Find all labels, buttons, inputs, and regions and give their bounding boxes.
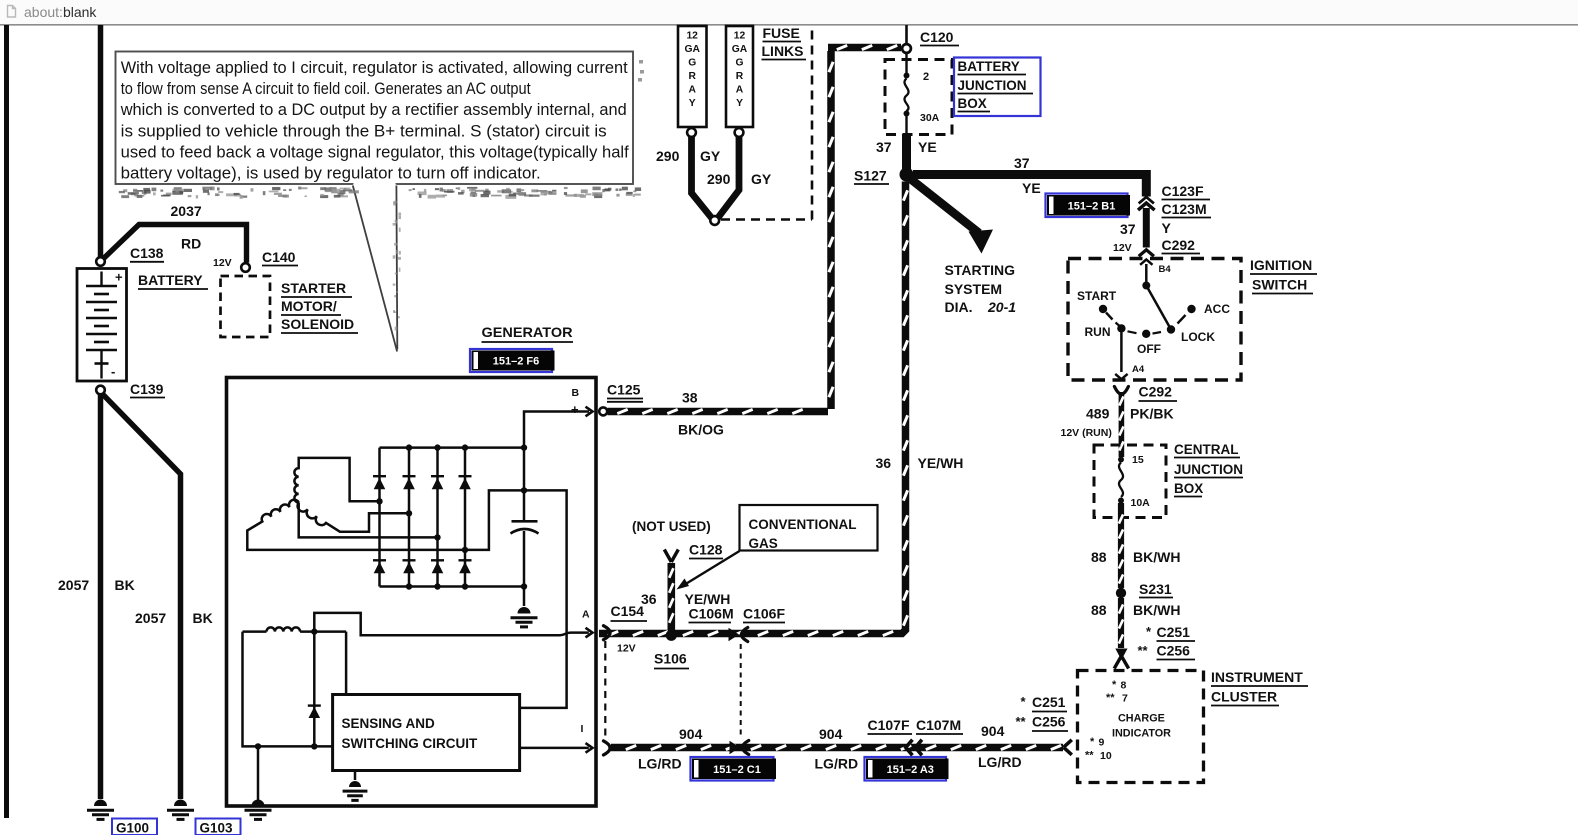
rectifier diodes <box>378 448 381 587</box>
svg-text:is supplied to vehicle through: is supplied to vehicle through the B+ te… <box>121 122 607 140</box>
svg-text:2037: 2037 <box>171 203 202 219</box>
wire battery feed vertical <box>98 25 104 257</box>
svg-text:A: A <box>688 85 696 96</box>
svg-text:GA: GA <box>684 44 700 55</box>
wire 2057 BK diagonal <box>102 394 181 800</box>
svg-text:A4: A4 <box>1132 364 1145 375</box>
contact LOCK <box>1167 325 1175 333</box>
svg-text:**: ** <box>1138 643 1149 658</box>
svg-text:BATTERY: BATTERY <box>958 59 1020 74</box>
svg-text:290: 290 <box>656 148 680 164</box>
fuse link left box <box>678 26 707 127</box>
svg-text:9: 9 <box>1099 737 1105 749</box>
svg-text:START: START <box>1077 289 1117 303</box>
svg-text:BK/WH: BK/WH <box>1133 549 1180 565</box>
svg-text:88: 88 <box>1091 602 1107 618</box>
svg-text:C256: C256 <box>1032 714 1066 730</box>
svg-text:to flow from sense A circuit t: to flow from sense A circuit to field co… <box>121 80 531 98</box>
svg-text:FUSE: FUSE <box>763 25 800 41</box>
connector C292 top <box>1139 250 1154 256</box>
svg-text:Y: Y <box>689 98 696 109</box>
node neutral to diode 3 <box>434 534 440 540</box>
svg-text:CENTRAL: CENTRAL <box>1174 442 1239 457</box>
label box 151-2 F6 <box>470 349 552 372</box>
browser tab bar <box>0 0 1578 24</box>
wire left edge vertical <box>4 25 9 818</box>
svg-text:C251: C251 <box>1032 694 1066 710</box>
node phase B to diode 4 <box>462 547 468 553</box>
arrow conventional gas <box>684 551 740 585</box>
svg-text:*: * <box>1112 679 1117 691</box>
svg-text:7: 7 <box>1122 693 1128 705</box>
svg-text:S106: S106 <box>654 651 687 667</box>
fuse link right box <box>726 26 753 127</box>
svg-text:BK: BK <box>193 610 213 626</box>
svg-text:A: A <box>736 85 744 96</box>
svg-text:12: 12 <box>734 31 746 42</box>
splice S127 <box>900 168 914 182</box>
904 wire end split <box>1064 740 1072 748</box>
svg-text:GAS: GAS <box>749 536 778 551</box>
wire 290 GY left <box>692 137 713 219</box>
svg-text:SYSTEM: SYSTEM <box>945 281 1003 297</box>
svg-text:C140: C140 <box>262 249 296 265</box>
svg-text:SENSING AND: SENSING AND <box>342 716 436 731</box>
dashed wire C106 to 904 <box>740 644 742 739</box>
svg-text:CLUSTER: CLUSTER <box>1211 689 1277 705</box>
ignition switch wiper <box>1142 282 1150 290</box>
svg-text:12V: 12V <box>1113 242 1132 254</box>
svg-text:B4: B4 <box>1159 264 1172 275</box>
svg-text:B: B <box>572 387 580 399</box>
field return wire <box>243 632 333 747</box>
node phase A to diode 1 <box>376 498 382 504</box>
svg-text:RUN: RUN <box>1085 325 1111 339</box>
contact START <box>1099 305 1107 313</box>
splice S106 <box>666 630 677 641</box>
svg-text:STARTING: STARTING <box>945 262 1016 278</box>
wire 290 GY right <box>717 137 739 219</box>
node field coil / diode top <box>311 628 317 634</box>
svg-text:used to feed back a voltage si: used to feed back a voltage signal regul… <box>121 143 629 161</box>
wire 38 BK/OG <box>608 408 829 416</box>
svg-text:OFF: OFF <box>1137 342 1161 356</box>
svg-text:JUNCTION: JUNCTION <box>958 78 1027 93</box>
sensing and switching circuit box <box>333 695 520 771</box>
connector at dashed line <box>730 741 741 754</box>
label box 151-2 A3 <box>865 757 947 781</box>
wire 88 BK/WH lower <box>1118 598 1124 648</box>
arrow to starting system <box>910 179 979 234</box>
svg-text:GY: GY <box>751 171 772 187</box>
svg-text:(NOT USED): (NOT USED) <box>632 519 711 534</box>
cut end of stub <box>664 550 671 563</box>
svg-text:YE/WH: YE/WH <box>918 455 964 471</box>
svg-text:+: + <box>571 402 579 417</box>
svg-text:BOX: BOX <box>1174 481 1203 496</box>
svg-text:battery voltage), is used by r: battery voltage), is used by regulator t… <box>121 165 541 183</box>
svg-text:**: ** <box>1016 714 1027 729</box>
svg-text:12: 12 <box>686 31 698 42</box>
arrow I terminal <box>586 743 593 753</box>
svg-text:MOTOR/: MOTOR/ <box>281 298 337 314</box>
battery B1 box <box>77 269 127 382</box>
svg-text:12V: 12V <box>617 643 636 655</box>
wire 88 BK/WH upper <box>1118 503 1124 588</box>
svg-text:10A: 10A <box>1131 497 1151 509</box>
svg-text:I: I <box>581 723 584 735</box>
svg-text:BK/OG: BK/OG <box>678 422 724 438</box>
svg-text:C251: C251 <box>1157 624 1191 640</box>
B4 arrow <box>1145 264 1148 283</box>
svg-text:LG/RD: LG/RD <box>638 756 682 772</box>
svg-text:12V: 12V <box>213 257 232 269</box>
arrow A terminal <box>586 628 593 638</box>
capacitor C <box>523 448 526 522</box>
fuse link right terminal <box>735 128 744 137</box>
svg-text:C123F: C123F <box>1162 183 1204 199</box>
svg-text:88: 88 <box>1091 549 1107 565</box>
svg-text:2: 2 <box>923 71 929 83</box>
svg-text:BK: BK <box>115 577 135 593</box>
svg-text:C107M: C107M <box>916 717 961 733</box>
wire fuse to S127 <box>902 134 911 169</box>
svg-text:about:blank: about:blank <box>24 4 97 20</box>
rectifier rails <box>380 446 525 449</box>
svg-text:G100: G100 <box>116 821 149 835</box>
svg-text:C292: C292 <box>1162 237 1196 253</box>
wire 489 PK/BK <box>1119 392 1125 457</box>
connector C107F C107M <box>906 740 913 756</box>
svg-text:904: 904 <box>819 726 843 742</box>
node diode bottom <box>311 743 317 749</box>
svg-text:CHARGE: CHARGE <box>1118 713 1165 725</box>
svg-text:INDICATOR: INDICATOR <box>1112 728 1171 740</box>
node phase C to diode 2 <box>406 510 412 516</box>
svg-text:S127: S127 <box>854 168 887 184</box>
page icon <box>8 6 16 18</box>
svg-text:LG/RD: LG/RD <box>978 754 1022 770</box>
wire 904 LG/RD <box>611 744 1063 752</box>
svg-text:LG/RD: LG/RD <box>815 756 859 772</box>
svg-text:GY: GY <box>700 148 721 164</box>
stator feedback wire to regulator <box>465 490 567 708</box>
wire to case ground <box>257 746 260 800</box>
svg-text:C256: C256 <box>1157 643 1191 659</box>
wire A sense line <box>314 613 589 635</box>
svg-text:PK/BK: PK/BK <box>1130 406 1174 422</box>
svg-text:C123M: C123M <box>1162 201 1207 217</box>
note box border <box>116 52 634 185</box>
svg-text:290: 290 <box>707 171 731 187</box>
wire above C120 <box>905 25 908 44</box>
scan noise under note box <box>153 192 156 195</box>
svg-text:INSTRUMENT: INSTRUMENT <box>1211 669 1303 685</box>
label box 151-2 C1 <box>691 757 774 781</box>
svg-text:SWITCH: SWITCH <box>1252 277 1307 293</box>
svg-text:C125: C125 <box>607 382 641 398</box>
svg-text:151–2 B1: 151–2 B1 <box>1068 201 1116 213</box>
svg-text:151–2 C1: 151–2 C1 <box>713 764 761 776</box>
svg-text:DIA.: DIA. <box>945 299 973 315</box>
svg-text:2057: 2057 <box>58 577 89 593</box>
svg-text:R: R <box>688 71 696 82</box>
field coil inductor <box>243 630 267 633</box>
svg-text:GENERATOR: GENERATOR <box>482 324 573 340</box>
contact OFF <box>1142 330 1150 338</box>
svg-text:36: 36 <box>876 455 892 471</box>
svg-text:151–2 A3: 151–2 A3 <box>887 764 934 776</box>
wire 2057 BK left <box>98 393 104 799</box>
generator box <box>227 378 597 807</box>
instrument cluster box <box>1078 671 1204 783</box>
svg-text:STARTER: STARTER <box>281 280 346 296</box>
wire 36 YE/WH <box>599 182 906 634</box>
contact RUN <box>1117 324 1125 332</box>
label G103 <box>196 819 241 835</box>
svg-text:2057: 2057 <box>135 610 166 626</box>
generator case ground <box>252 800 265 806</box>
wire hatched vertical to C125 <box>827 51 835 409</box>
ground G100 symbol <box>94 800 107 806</box>
svg-text:which is converted to a DC out: which is converted to a DC output by a r… <box>120 101 627 119</box>
svg-text:YE: YE <box>1022 180 1041 196</box>
svg-text:G: G <box>735 58 743 69</box>
connector C125 <box>599 407 607 415</box>
svg-text:BATTERY: BATTERY <box>138 272 203 288</box>
svg-text:C138: C138 <box>130 245 164 261</box>
svg-text:SWITCHING CIRCUIT: SWITCHING CIRCUIT <box>342 736 478 751</box>
node capacitor top <box>521 487 527 493</box>
svg-text:C107F: C107F <box>868 717 910 733</box>
label box 151-2 B1 <box>1046 194 1128 218</box>
svg-text:G103: G103 <box>200 821 234 835</box>
svg-text:S231: S231 <box>1139 581 1172 597</box>
label BATTERY JUNCTION BOX <box>954 58 1041 117</box>
wire hatched horizontal to C120 <box>828 44 901 52</box>
connector C140 circle <box>241 263 250 272</box>
svg-text:CONVENTIONAL: CONVENTIONAL <box>749 517 857 532</box>
arrow B terminal <box>586 407 593 417</box>
svg-text:15: 15 <box>1132 454 1144 466</box>
svg-text:**: ** <box>1085 750 1094 762</box>
svg-text:A: A <box>582 609 590 621</box>
svg-text:37: 37 <box>1120 221 1136 237</box>
svg-text:37: 37 <box>876 139 892 155</box>
wire 37 YE to ignition switch <box>913 175 1146 197</box>
wire 2037 RD <box>104 225 247 263</box>
svg-text:YE: YE <box>918 139 937 155</box>
svg-text:10: 10 <box>1100 750 1112 762</box>
svg-text:G: G <box>688 58 696 69</box>
connector C120 <box>902 44 911 53</box>
svg-text:ACC: ACC <box>1204 302 1230 316</box>
fuse link left terminal <box>687 128 696 137</box>
field diode <box>313 632 316 747</box>
svg-text:36: 36 <box>641 591 657 607</box>
svg-text:20-1: 20-1 <box>987 299 1016 315</box>
svg-text:151–2 F6: 151–2 F6 <box>493 356 539 368</box>
svg-text:489: 489 <box>1086 406 1110 422</box>
battery junction box <box>885 60 952 135</box>
svg-text:BK/WH: BK/WH <box>1133 602 1180 618</box>
label G100 <box>112 819 157 835</box>
dashed connector boundary <box>604 641 606 741</box>
regulator ground <box>354 771 357 781</box>
connector C123F C123M <box>1139 197 1154 203</box>
svg-text:C154: C154 <box>611 603 645 619</box>
connector I horns <box>604 741 611 755</box>
stator neutral tap <box>299 503 438 538</box>
contact ACC <box>1187 305 1195 313</box>
svg-text:**: ** <box>1106 692 1115 704</box>
svg-text:C106M: C106M <box>689 606 734 622</box>
central junction box <box>1094 445 1166 518</box>
connector C138 <box>96 257 105 266</box>
svg-text:38: 38 <box>682 390 698 406</box>
svg-text:R: R <box>736 71 744 82</box>
starter motor/solenoid box <box>221 276 271 337</box>
svg-text:*: * <box>1090 736 1095 748</box>
svg-text:+: + <box>115 270 123 285</box>
svg-text:SOLENOID: SOLENOID <box>281 316 354 332</box>
connector C106M C106F <box>729 628 740 642</box>
battery cells <box>100 272 102 287</box>
svg-text:LOCK: LOCK <box>1181 330 1215 344</box>
svg-text:C139: C139 <box>130 381 164 397</box>
dashed wire from fuse links junction <box>721 218 812 221</box>
wire to B+ terminal <box>524 412 589 448</box>
arrow into instrument cluster <box>1115 649 1127 661</box>
ground G103 symbol <box>174 800 187 806</box>
svg-text:-: - <box>111 364 115 379</box>
fuse 2 30A <box>904 73 910 79</box>
wire I indicator line <box>520 747 589 750</box>
ignition switch box <box>1068 259 1241 381</box>
connector C292 bottom horns <box>1114 387 1128 395</box>
splice S231 <box>1116 588 1126 598</box>
svg-text:C106F: C106F <box>743 606 785 622</box>
svg-text:30A: 30A <box>920 112 940 124</box>
svg-text:JUNCTION: JUNCTION <box>1174 462 1243 477</box>
svg-text:LINKS: LINKS <box>762 43 804 59</box>
connector C154 horns <box>604 626 611 640</box>
svg-text:Y: Y <box>1162 220 1172 236</box>
fuse 15 10A <box>1118 457 1124 463</box>
svg-text:C128: C128 <box>689 542 723 558</box>
svg-text:Y: Y <box>736 98 743 109</box>
svg-text:12V (RUN): 12V (RUN) <box>1061 427 1112 439</box>
conventional gas box <box>740 505 878 551</box>
wire into fuse 2 <box>905 53 907 73</box>
svg-text:IGNITION: IGNITION <box>1250 257 1312 273</box>
svg-text:BOX: BOX <box>958 96 987 111</box>
wire field to regulator top <box>345 632 348 695</box>
stator winding <box>294 458 379 503</box>
svg-text:904: 904 <box>679 726 703 742</box>
note box tail <box>353 185 397 352</box>
svg-text:8: 8 <box>1121 680 1127 692</box>
svg-text:With voltage applied to I circ: With voltage applied to I circuit, regul… <box>121 59 628 77</box>
junction fuse links <box>710 216 719 225</box>
wire stub not used <box>667 563 675 630</box>
svg-text:37: 37 <box>1014 155 1030 171</box>
svg-text:904: 904 <box>981 723 1005 739</box>
svg-text:C120: C120 <box>920 29 954 45</box>
connector C139 <box>96 386 105 395</box>
A4 arrow <box>1120 333 1123 373</box>
capacitor ground <box>523 587 526 607</box>
svg-text:RD: RD <box>181 236 201 252</box>
svg-text:C292: C292 <box>1139 384 1173 400</box>
node ground tap <box>255 743 261 749</box>
svg-text:GA: GA <box>732 44 748 55</box>
